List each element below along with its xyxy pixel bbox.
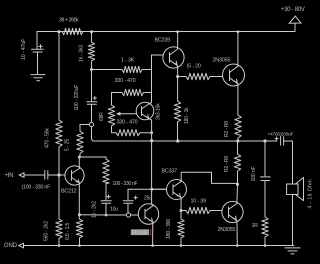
resistor R4 (Q1 load)	[103, 159, 109, 184]
node: rail junction (152.6,245.5)	[151, 244, 154, 247]
wire: Q2 emitter down	[177, 66, 179, 101]
wire: R9 right to column	[144, 92, 152, 94]
wire: line A mid	[58, 147, 60, 219]
wire: R16 to ground rail	[180, 238, 182, 246]
svg-text:R2 - R8: R2 - R8	[224, 156, 230, 172]
node: rail junction (237.3,245.5)	[236, 244, 239, 247]
input terminal	[19, 173, 24, 178]
wiper arrow of P1	[120, 113, 138, 115]
svg-text:10 - 39: 10 - 39	[191, 199, 207, 205]
wire: C2 to base node	[48, 174, 65, 176]
transistor Q7 BC337 (driver)	[167, 180, 187, 200]
label Q5 highlighted BC338	[131, 229, 149, 235]
svg-text:(5 - 20: (5 - 20	[187, 64, 201, 70]
wire: node D to R7	[92, 69, 123, 71]
wire: R7 to column x151.5	[142, 69, 152, 71]
wire: R12 to Q3 base	[210, 76, 223, 78]
capacitor C6 output	[281, 137, 284, 146]
wire: pot bottom to R10	[112, 126, 117, 133]
resistor R6 1k-3k3	[88, 42, 94, 61]
svg-text:4 - 16 Ohm: 4 - 16 Ohm	[308, 179, 314, 209]
wire: Q7 emitter down	[180, 198, 182, 219]
resistor R2 470-56k	[56, 120, 62, 147]
node D: junction y69.5	[90, 68, 93, 71]
wire: Q7 base from tap	[152, 188, 167, 190]
ground terminal	[19, 243, 24, 248]
transistor Q3 2N3055 (top right)	[223, 64, 245, 86]
svg-text:3k3-15k: 3k3-15k	[156, 103, 162, 120]
capacitor C2 input 100-330nF	[45, 171, 48, 180]
wire: R9 left corner to pot	[112, 93, 123, 106]
resistor R15 10-39	[181, 207, 222, 213]
resistor R10 330-470 (lower)	[116, 130, 140, 136]
polarity + of C5	[134, 196, 137, 199]
resistor R1 39+390k (in rail)	[62, 28, 83, 34]
node: rail junction x237.9	[237, 30, 240, 33]
wire: Q1 upper lead to node C	[78, 157, 80, 169]
node: junction (106,215)	[105, 214, 108, 217]
transistor Q5 (lower driver, on column)	[138, 204, 158, 224]
resistor R7 1-3k	[122, 66, 142, 72]
svg-text:100 nF: 100 nF	[251, 167, 257, 182]
svg-text:10u: 10u	[110, 207, 118, 213]
polarity + of C1	[39, 45, 42, 48]
wire: Q3 collector to rail	[237, 32, 239, 67]
wire: input to C2	[24, 174, 44, 176]
node: junction (181,210.5)	[180, 209, 183, 212]
node: emitter junction y215	[78, 213, 81, 216]
wire: line B from rail	[91, 32, 93, 43]
capacitor C7 zobel 100nF	[260, 177, 270, 181]
speaker SPK	[287, 177, 304, 200]
wire: +V supply rail	[37, 31, 295, 33]
wire: Q2 collector to rail	[177, 32, 179, 50]
capacitor C3	[101, 201, 111, 204]
svg-text:39 + 390k: 39 + 390k	[59, 18, 79, 24]
resistor R16 180-390	[178, 219, 184, 238]
svg-text:100 - 220uF: 100 - 220uF	[74, 85, 80, 111]
transistor Q6 2N3055 (bottom)	[222, 201, 243, 222]
svg-text:10 - 47uF: 10 - 47uF	[21, 38, 27, 60]
wire: node C to load resistor R4	[79, 157, 106, 159]
svg-text:100 - 330 nF: 100 - 330 nF	[113, 181, 138, 187]
resistor R12 15-20	[186, 73, 210, 79]
wire: R11 to output line	[177, 122, 179, 141]
wire: node G to R12	[178, 76, 186, 78]
svg-text:1R: 1R	[252, 223, 259, 229]
red mark next to Q5 label	[150, 229, 151, 235]
resistor R5 0.5-1.5	[76, 219, 82, 238]
transistor Q4 (VAS, on column)	[136, 102, 154, 120]
wire: Q3 emitter down	[237, 84, 239, 115]
wire: filter cap drop	[36, 32, 38, 49]
svg-text:2N3055: 2N3055	[213, 58, 231, 64]
wire: Q6 collector up to node	[236, 185, 239, 204]
node C: Q1 collector junction	[78, 156, 81, 159]
wire: Q5 emitter to ground rail	[152, 222, 154, 245]
wire: R17 to ground rail	[264, 237, 266, 246]
wire: R4 down to C3	[105, 184, 107, 200]
supply terminal arrow +30-80V	[289, 16, 301, 23]
polarity + of C3	[107, 195, 110, 198]
svg-text:1 - 3K: 1 - 3K	[121, 58, 135, 64]
wire: R8 to node C	[79, 154, 81, 158]
svg-text:(100 - 330 nF: (100 - 330 nF	[22, 185, 51, 191]
wire: R13 to output line	[237, 138, 239, 141]
node G: junction (177.6,76.5)	[176, 75, 179, 78]
polarity + of C4	[93, 96, 96, 99]
resistor R9 330-470 (upper)	[122, 89, 144, 95]
resistor R13 emitter (upper)	[235, 115, 241, 138]
node E: ring junction (91.5,124.5)	[89, 122, 93, 126]
wire: C7 to R17	[264, 181, 266, 218]
wire: ground rail	[24, 245, 295, 247]
node: tap junction (152,189.2)	[150, 188, 153, 191]
node: junction (265,141)	[263, 139, 266, 142]
svg-text:R2 - R8: R2 - R8	[224, 121, 230, 137]
wire: C3 to base bus y215	[105, 204, 107, 215]
svg-text:25u: 25u	[144, 196, 152, 202]
svg-text:0.5 - 1.5: 0.5 - 1.5	[65, 222, 71, 240]
svg-text:180 - 390: 180 - 390	[166, 219, 172, 239]
svg-text:180 - 1k: 180 - 1k	[184, 107, 190, 124]
node: rail junction (181,245.5)	[180, 244, 183, 247]
node: supply entry corner	[294, 24, 296, 32]
svg-text:BC239: BC239	[155, 38, 171, 44]
svg-text:+IN: +IN	[5, 173, 14, 179]
svg-text:+470/2200uF: +470/2200uF	[268, 132, 294, 138]
node F: ring junction (128.5,215)	[126, 213, 130, 217]
wire: speaker to ground	[292, 195, 294, 246]
wire: Q5 collector up (column)	[152, 204, 153, 206]
node: output junction (238,141)	[236, 139, 239, 142]
wire: x80 corner down to R8	[79, 125, 81, 132]
resistor R11 100-180	[174, 101, 180, 122]
node: rail junction x177.6	[176, 30, 179, 33]
node: rail junction (79.5,245.5)	[78, 244, 81, 247]
wire: base bus y215	[79, 214, 138, 216]
wire: R5 to ground rail	[79, 238, 81, 246]
transistor Q2 BC239 (top)	[163, 47, 184, 68]
wire: column x151.5 vertical	[151, 55, 153, 103]
wire: Q2 base from column	[152, 54, 164, 56]
svg-text:330 - 470: 330 - 470	[117, 120, 138, 126]
resistor R8 5-25	[77, 131, 83, 154]
resistor R17 1R	[262, 217, 268, 237]
wire: C6 to speaker corner	[284, 141, 293, 184]
wire: R6 to node D	[91, 61, 93, 101]
wire: Q1 lower lead	[78, 183, 80, 220]
wire: line A bottom	[58, 239, 60, 246]
svg-text:+30 - 80V: +30 - 80V	[281, 7, 305, 13]
svg-text:1k - 3k3: 1k - 3k3	[79, 45, 85, 62]
svg-text:68R: 68R	[99, 112, 105, 121]
node: junction (237.5,184.5)	[236, 183, 239, 186]
polarity + of C6	[275, 137, 278, 140]
wire: Q4 collector up	[149, 103, 152, 104]
capacitor C4 100-220uF (bootstrap)	[87, 102, 97, 105]
wire: line A upper (x59)	[58, 32, 60, 121]
wire: C4 down to ring node	[91, 105, 93, 123]
node: rail junction (59,245.5)	[58, 244, 61, 247]
svg-text:330 - 470: 330 - 470	[115, 78, 136, 84]
node: input junction on line A	[57, 173, 60, 176]
svg-text:BC212: BC212	[61, 189, 77, 195]
capacitor C5	[123, 201, 133, 204]
svg-text:2N3055: 2N3055	[218, 227, 236, 233]
svg-text:GND: GND	[4, 243, 18, 249]
wire: Q6 emitter to ground rail	[236, 221, 238, 246]
wire: ring node left to x80	[80, 124, 89, 126]
wire: output line y141	[91, 121, 93, 123]
node: junction (177.5,141)	[176, 139, 179, 142]
ground symbol (main)	[285, 248, 300, 254]
svg-text:560 - 2k2: 560 - 2k2	[44, 221, 50, 241]
potentiometer P1 330-470	[108, 105, 114, 126]
wire: C5 up to tap y189.2	[128, 189, 167, 213]
transistor Q1 BC212	[65, 166, 84, 185]
wire: zobel drop	[264, 141, 266, 176]
node A: rail junction x59	[58, 30, 61, 33]
node: junction (151.6,132.7)	[150, 131, 153, 134]
wire: Q4 emitter down along column	[149, 119, 152, 205]
svg-text:5 - 25: 5 - 25	[65, 139, 71, 151]
wire: R10 to column junction	[140, 132, 152, 134]
wire: C1 to ground	[37, 53, 39, 75]
resistor R14 (lower R2-R8)	[234, 141, 240, 185]
node: output junction (151.6,140.7)	[150, 139, 153, 142]
svg-text:BC338: BC338	[132, 230, 147, 236]
svg-text:470 - 56k: 470 - 56k	[45, 128, 51, 148]
node B: rail junction x91.5	[90, 30, 93, 33]
svg-text:BC337: BC337	[162, 169, 178, 175]
resistor R3 560-2k2	[56, 219, 62, 239]
node: rail junction (265,245.5)	[264, 244, 267, 247]
wire: Q7 collector step to Q6 collector node	[181, 172, 237, 183]
capacitor C1 10-47uF	[32, 49, 44, 52]
ground symbol (C1)	[31, 75, 45, 81]
